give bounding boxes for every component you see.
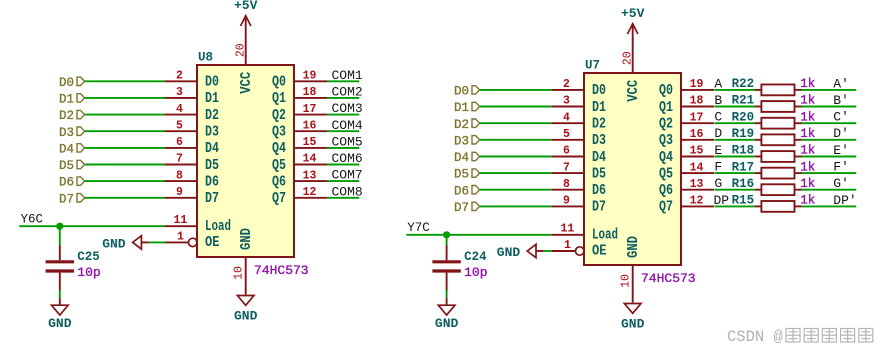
wire R15 to DP' bbox=[802, 205, 857, 207]
svg-text:R20: R20 bbox=[732, 110, 755, 124]
pin 11 Load of U8 bbox=[164, 214, 197, 227]
hierarchical label D2 bbox=[59, 109, 85, 123]
svg-text:D6: D6 bbox=[454, 184, 469, 198]
resistor R16 1k bbox=[732, 177, 816, 195]
wire Q2 of U8 to COM3 bbox=[327, 114, 359, 116]
resistor R21 1k bbox=[732, 94, 816, 112]
svg-text:74HC573: 74HC573 bbox=[254, 263, 309, 278]
svg-text:E: E bbox=[714, 143, 722, 158]
svg-text:U7: U7 bbox=[585, 58, 600, 72]
wire D0 to U7 bbox=[479, 89, 551, 91]
svg-text:13: 13 bbox=[690, 178, 704, 191]
svg-text:GND: GND bbox=[234, 309, 258, 324]
svg-text:9: 9 bbox=[563, 195, 570, 208]
pin 14 of U7 bbox=[681, 161, 714, 174]
svg-text:10p: 10p bbox=[77, 265, 100, 280]
wire R21 to B' bbox=[802, 106, 857, 108]
svg-text:A: A bbox=[714, 76, 722, 91]
svg-text:Load: Load bbox=[205, 219, 231, 235]
svg-text:D4: D4 bbox=[59, 143, 74, 157]
wire C24 bottom lead bbox=[446, 290, 448, 298]
pin 12 of U8 bbox=[294, 186, 327, 199]
IC U8 body bbox=[197, 65, 294, 257]
pin 18 of U8 bbox=[294, 86, 327, 99]
pin 18 of U7 bbox=[681, 95, 714, 108]
svg-text:17: 17 bbox=[303, 103, 317, 116]
svg-text:18: 18 bbox=[303, 86, 317, 99]
svg-text:C24: C24 bbox=[464, 250, 487, 264]
pin 3 of U7 bbox=[551, 95, 584, 108]
wire R22 to A' bbox=[802, 89, 857, 91]
svg-text:COM3: COM3 bbox=[332, 101, 363, 116]
svg-text:D3: D3 bbox=[59, 126, 74, 140]
wire net Y7C to pin 11 of U7 bbox=[406, 234, 551, 236]
svg-text:6: 6 bbox=[176, 136, 183, 149]
svg-text:GND: GND bbox=[102, 236, 126, 251]
ground at OE of U8 bbox=[102, 236, 149, 252]
svg-text:Q6: Q6 bbox=[659, 183, 673, 199]
svg-text:COM5: COM5 bbox=[332, 135, 363, 150]
svg-text:2: 2 bbox=[563, 78, 570, 91]
svg-text:4: 4 bbox=[563, 111, 570, 124]
wire D0 to U8 bbox=[84, 80, 164, 82]
svg-text:Q0: Q0 bbox=[272, 75, 286, 91]
svg-text:D3: D3 bbox=[592, 133, 606, 149]
svg-text:GND: GND bbox=[48, 316, 72, 331]
svg-text:Q4: Q4 bbox=[272, 141, 286, 157]
svg-text:16: 16 bbox=[690, 128, 704, 141]
svg-text:D3: D3 bbox=[454, 134, 469, 148]
hierarchical label D6 bbox=[454, 184, 480, 198]
svg-text:19: 19 bbox=[303, 70, 317, 83]
wire Q7 of U7 to R15 bbox=[715, 205, 755, 207]
wire D2 to U7 bbox=[479, 122, 551, 124]
svg-text:D6: D6 bbox=[205, 174, 219, 190]
svg-text:2: 2 bbox=[176, 70, 183, 83]
wire R20 to C' bbox=[802, 122, 857, 124]
hierarchical label D6 bbox=[59, 176, 85, 190]
svg-text:D7: D7 bbox=[592, 200, 606, 216]
svg-text:10p: 10p bbox=[464, 265, 487, 280]
svg-text:D4: D4 bbox=[592, 150, 606, 166]
wire Q3 of U7 to R19 bbox=[715, 139, 755, 141]
svg-text:12: 12 bbox=[303, 186, 317, 199]
svg-text:3: 3 bbox=[176, 86, 183, 99]
wire D7 to U8 bbox=[84, 197, 164, 199]
resistor R20 1k bbox=[732, 110, 816, 128]
svg-text:D1: D1 bbox=[59, 93, 74, 107]
svg-text:Y6C: Y6C bbox=[21, 213, 44, 227]
svg-text:7: 7 bbox=[176, 153, 183, 166]
resistor R18 1k bbox=[732, 144, 816, 162]
wire Q0 of U7 to R22 bbox=[715, 89, 755, 91]
svg-text:D7: D7 bbox=[59, 192, 74, 206]
svg-text:C: C bbox=[714, 110, 722, 125]
svg-text:GND: GND bbox=[497, 245, 521, 260]
wire R18 to E' bbox=[802, 156, 857, 158]
svg-text:E': E' bbox=[833, 143, 849, 158]
resistor R19 1k bbox=[732, 127, 816, 145]
capacitor C24 10p bbox=[432, 245, 487, 290]
svg-text:20: 20 bbox=[235, 43, 248, 57]
svg-text:C': C' bbox=[833, 110, 849, 125]
wire R17 to F' bbox=[802, 172, 857, 174]
svg-text:5: 5 bbox=[563, 128, 570, 141]
hierarchical label D3 bbox=[59, 126, 85, 140]
svg-text:OE: OE bbox=[592, 243, 607, 259]
pin 5 of U8 bbox=[164, 119, 197, 132]
svg-text:15: 15 bbox=[690, 145, 704, 158]
svg-text:Q6: Q6 bbox=[272, 174, 286, 190]
svg-text:1: 1 bbox=[564, 239, 571, 252]
wire GND to pin 1 of U8 bbox=[149, 241, 165, 243]
svg-text:VCC: VCC bbox=[626, 80, 642, 102]
svg-text:12: 12 bbox=[690, 195, 704, 208]
svg-text:14: 14 bbox=[690, 161, 704, 174]
wire D3 to U7 bbox=[479, 139, 551, 141]
svg-text:R17: R17 bbox=[732, 160, 755, 174]
wire Q6 of U7 to R16 bbox=[715, 189, 755, 191]
wire Q2 of U7 to R20 bbox=[715, 122, 755, 124]
svg-text:U8: U8 bbox=[198, 50, 213, 64]
svg-text:D5: D5 bbox=[205, 158, 219, 174]
ground below C25 bbox=[48, 305, 72, 331]
svg-text:17: 17 bbox=[690, 111, 704, 124]
wire D6 to U8 bbox=[84, 180, 164, 182]
svg-text:3: 3 bbox=[563, 95, 570, 108]
svg-text:B: B bbox=[714, 93, 722, 108]
hierarchical label D2 bbox=[454, 118, 480, 132]
svg-text:R21: R21 bbox=[732, 94, 755, 108]
svg-text:1: 1 bbox=[177, 230, 184, 243]
wire D7 to U7 bbox=[479, 205, 551, 207]
svg-text:D1: D1 bbox=[454, 101, 469, 115]
hierarchical label D4 bbox=[454, 151, 480, 165]
svg-text:D3: D3 bbox=[205, 125, 219, 141]
hierarchical label D5 bbox=[454, 168, 480, 182]
svg-text:D0: D0 bbox=[205, 75, 219, 91]
svg-text:D6: D6 bbox=[592, 183, 606, 199]
svg-text:Q4: Q4 bbox=[659, 150, 673, 166]
hierarchical label D3 bbox=[454, 134, 480, 148]
resistor R22 1k bbox=[732, 77, 816, 95]
svg-text:G': G' bbox=[833, 176, 849, 191]
wire D2 to U8 bbox=[84, 114, 164, 116]
pin 16 of U7 bbox=[681, 128, 714, 141]
pin 15 of U8 bbox=[294, 136, 327, 149]
ground at OE of U7 bbox=[497, 244, 544, 260]
power +5V symbol bbox=[234, 0, 258, 65]
svg-text:C25: C25 bbox=[77, 250, 100, 264]
watermark CSDN bbox=[727, 328, 783, 346]
svg-text:+5V: +5V bbox=[621, 6, 645, 21]
svg-text:COM7: COM7 bbox=[332, 168, 363, 183]
svg-text:Q7: Q7 bbox=[272, 191, 286, 207]
svg-text:D4: D4 bbox=[454, 151, 469, 165]
junction Y6C / C25 bbox=[56, 223, 63, 230]
pin 11 Load of U7 bbox=[551, 223, 584, 236]
hierarchical label D4 bbox=[59, 143, 85, 157]
ground pin 10 of U8 bbox=[234, 296, 258, 324]
hierarchical label D0 bbox=[59, 76, 85, 90]
svg-text:D0: D0 bbox=[454, 85, 469, 99]
svg-text:D0: D0 bbox=[59, 76, 74, 90]
svg-text:GND: GND bbox=[621, 317, 645, 332]
pin 13 of U7 bbox=[681, 178, 714, 191]
capacitor C25 10p bbox=[46, 245, 101, 290]
svg-text:Q0: Q0 bbox=[659, 83, 673, 99]
pin 6 of U7 bbox=[551, 145, 584, 158]
svg-text:D5: D5 bbox=[454, 168, 469, 182]
svg-text:Q3: Q3 bbox=[659, 133, 673, 149]
resistor R15 1k bbox=[732, 194, 816, 212]
svg-text:D': D' bbox=[833, 126, 849, 141]
wire D5 to U7 bbox=[479, 172, 551, 174]
IC U7 body bbox=[584, 73, 681, 265]
wire D1 to U7 bbox=[479, 106, 551, 108]
ground pin 10 of U7 bbox=[621, 304, 645, 332]
svg-text:D1: D1 bbox=[205, 91, 219, 107]
pin 10 GND of U7 bbox=[620, 265, 633, 303]
pin 19 of U7 bbox=[681, 78, 714, 91]
pin 15 of U7 bbox=[681, 145, 714, 158]
svg-text:Y7C: Y7C bbox=[407, 221, 430, 235]
svg-text:Q2: Q2 bbox=[659, 117, 673, 133]
pin 17 of U7 bbox=[681, 111, 714, 124]
svg-text:B': B' bbox=[833, 93, 849, 108]
wire D3 to U8 bbox=[84, 130, 164, 132]
svg-text:Q7: Q7 bbox=[659, 200, 673, 216]
svg-text:D1: D1 bbox=[592, 100, 606, 116]
svg-text:R18: R18 bbox=[732, 144, 755, 158]
svg-text:F': F' bbox=[833, 160, 849, 175]
junction Y7C / C24 bbox=[443, 231, 450, 238]
wire Q1 of U7 to R21 bbox=[715, 106, 755, 108]
svg-text:4: 4 bbox=[176, 103, 183, 116]
ground below C24 bbox=[435, 305, 459, 331]
wire Q5 of U8 to COM6 bbox=[327, 164, 359, 166]
svg-text:D4: D4 bbox=[205, 141, 219, 157]
hierarchical label D1 bbox=[454, 101, 480, 115]
svg-text:COM6: COM6 bbox=[332, 151, 363, 166]
svg-text:D2: D2 bbox=[205, 108, 219, 124]
resistor R17 1k bbox=[732, 160, 816, 178]
svg-text:Q5: Q5 bbox=[272, 158, 286, 174]
svg-text:6: 6 bbox=[563, 145, 570, 158]
pin 9 of U8 bbox=[164, 186, 197, 199]
pin 14 of U8 bbox=[294, 153, 327, 166]
svg-text:G: G bbox=[714, 176, 722, 191]
svg-text:Q1: Q1 bbox=[659, 100, 673, 116]
svg-text:D2: D2 bbox=[59, 109, 74, 123]
svg-text:10: 10 bbox=[620, 274, 633, 288]
svg-text:13: 13 bbox=[303, 169, 317, 182]
wire R19 to D' bbox=[802, 139, 857, 141]
svg-text:F: F bbox=[714, 160, 722, 175]
pin 13 of U8 bbox=[294, 169, 327, 182]
pin 2 of U7 bbox=[551, 78, 584, 91]
svg-text:VCC: VCC bbox=[239, 72, 255, 94]
pin 17 of U8 bbox=[294, 103, 327, 116]
wire C24 top lead bbox=[446, 235, 448, 246]
svg-text:D: D bbox=[714, 126, 722, 141]
pin 4 of U8 bbox=[164, 103, 197, 116]
svg-text:COM4: COM4 bbox=[332, 118, 363, 133]
pin 4 of U7 bbox=[551, 111, 584, 124]
pin 10 GND of U8 bbox=[233, 257, 246, 295]
pin 8 of U8 bbox=[164, 169, 197, 182]
wire D6 to U7 bbox=[479, 189, 551, 191]
hierarchical label D7 bbox=[59, 192, 85, 206]
pin 1 OE of U7 with inversion bubble bbox=[552, 239, 584, 255]
svg-text:18: 18 bbox=[690, 95, 704, 108]
svg-text:14: 14 bbox=[303, 153, 317, 166]
pin 19 of U8 bbox=[294, 70, 327, 83]
svg-text:+5V: +5V bbox=[234, 0, 258, 13]
wire Q4 of U8 to COM5 bbox=[327, 147, 359, 149]
svg-text:D6: D6 bbox=[59, 176, 74, 190]
power +5V symbol bbox=[621, 6, 645, 73]
wire Q4 of U7 to R18 bbox=[715, 156, 755, 158]
pin 2 of U8 bbox=[164, 70, 197, 83]
wire D1 to U8 bbox=[84, 97, 164, 99]
wire Q6 of U8 to COM7 bbox=[327, 180, 359, 182]
svg-text:Load: Load bbox=[592, 227, 618, 243]
svg-text:GND: GND bbox=[626, 236, 642, 258]
pin 7 of U8 bbox=[164, 153, 197, 166]
pin 16 of U8 bbox=[294, 119, 327, 132]
svg-text:D5: D5 bbox=[59, 159, 74, 173]
svg-text:R15: R15 bbox=[732, 194, 755, 208]
wire D4 to U8 bbox=[84, 147, 164, 149]
svg-text:OE: OE bbox=[205, 235, 220, 251]
svg-text:COM2: COM2 bbox=[332, 85, 363, 100]
wire Q0 of U8 to COM1 bbox=[327, 80, 359, 82]
svg-text:Q3: Q3 bbox=[272, 125, 286, 141]
svg-text:R22: R22 bbox=[732, 77, 755, 91]
svg-text:8: 8 bbox=[563, 178, 570, 191]
svg-text:COM1: COM1 bbox=[332, 68, 363, 83]
svg-text:CSDN @: CSDN @ bbox=[727, 328, 783, 346]
hierarchical label D5 bbox=[59, 159, 85, 173]
pin 5 of U7 bbox=[551, 128, 584, 141]
svg-text:R19: R19 bbox=[732, 127, 755, 141]
wire GND to pin 1 of U7 bbox=[544, 250, 552, 252]
wire Q7 of U8 to COM8 bbox=[327, 197, 359, 199]
svg-text:8: 8 bbox=[176, 169, 183, 182]
svg-text:DP': DP' bbox=[833, 193, 856, 208]
hierarchical label D7 bbox=[454, 201, 480, 215]
svg-text:19: 19 bbox=[690, 78, 704, 91]
svg-text:COM8: COM8 bbox=[332, 184, 363, 199]
svg-text:D7: D7 bbox=[205, 191, 219, 207]
svg-text:GND: GND bbox=[239, 228, 255, 250]
wire R16 to G' bbox=[802, 189, 857, 191]
svg-text:20: 20 bbox=[622, 51, 635, 65]
svg-text:D2: D2 bbox=[454, 118, 469, 132]
svg-text:R16: R16 bbox=[732, 177, 755, 191]
svg-text:15: 15 bbox=[303, 136, 317, 149]
pin 9 of U7 bbox=[551, 195, 584, 208]
wire C25 bottom lead bbox=[59, 290, 61, 298]
svg-text:D2: D2 bbox=[592, 117, 606, 133]
pin 3 of U8 bbox=[164, 86, 197, 99]
wire D5 to U8 bbox=[84, 164, 164, 166]
svg-text:74HC573: 74HC573 bbox=[641, 271, 696, 286]
pin 8 of U7 bbox=[551, 178, 584, 191]
wire Q1 of U8 to COM2 bbox=[327, 97, 359, 99]
pin 6 of U8 bbox=[164, 136, 197, 149]
wire D4 to U7 bbox=[479, 156, 551, 158]
svg-text:DP: DP bbox=[713, 193, 729, 208]
svg-text:GND: GND bbox=[435, 316, 459, 331]
svg-text:D7: D7 bbox=[454, 201, 469, 215]
svg-text:7: 7 bbox=[563, 161, 570, 174]
hierarchical label D0 bbox=[454, 85, 480, 99]
svg-text:11: 11 bbox=[173, 214, 187, 227]
hierarchical label D1 bbox=[59, 93, 85, 107]
svg-text:9: 9 bbox=[176, 186, 183, 199]
svg-text:5: 5 bbox=[176, 119, 183, 132]
svg-text:10: 10 bbox=[233, 266, 246, 280]
svg-text:11: 11 bbox=[560, 223, 574, 236]
svg-text:16: 16 bbox=[303, 119, 317, 132]
wire Q5 of U7 to R17 bbox=[715, 172, 755, 174]
wire Q3 of U8 to COM4 bbox=[327, 130, 359, 132]
svg-text:Q5: Q5 bbox=[659, 166, 673, 182]
svg-text:D0: D0 bbox=[592, 83, 606, 99]
svg-text:D5: D5 bbox=[592, 166, 606, 182]
watermark hanzi glyph blocks bbox=[786, 329, 873, 343]
svg-text:Q1: Q1 bbox=[272, 91, 286, 107]
wire net Y6C to pin 11 of U8 bbox=[19, 225, 164, 227]
pin 1 OE of U8 with inversion bubble bbox=[165, 230, 197, 246]
pin 7 of U7 bbox=[551, 161, 584, 174]
wire C25 top lead bbox=[59, 226, 61, 245]
svg-text:Q2: Q2 bbox=[272, 108, 286, 124]
svg-text:A': A' bbox=[833, 76, 849, 91]
pin 12 of U7 bbox=[681, 195, 714, 208]
